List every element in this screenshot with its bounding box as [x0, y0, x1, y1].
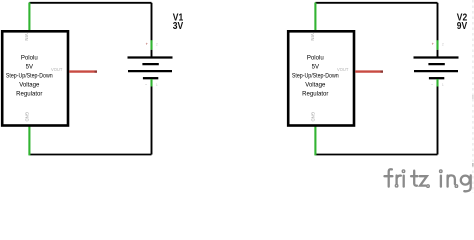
battery V2 - pin (green leg)	[436, 79, 438, 87]
svg-text:5V: 5V	[26, 64, 33, 70]
svg-text:Step-Up/Step-Down: Step-Up/Step-Down	[292, 73, 339, 79]
svg-text:VOUT: VOUT	[337, 67, 349, 72]
logo letter i (1st)	[403, 176, 405, 187]
ring under r	[395, 184, 398, 187]
wire bottom right circuit	[315, 154, 437, 156]
wire top right circuit	[315, 2, 437, 4]
wire top left circuit	[29, 2, 151, 4]
logo letter t	[414, 171, 417, 186]
logo rings (pads)	[395, 170, 457, 187]
op-amp U1 regulator box	[2, 31, 68, 125]
wire bottom left circuit	[29, 154, 151, 156]
pin VIN U1 (green leg)	[28, 3, 30, 32]
svg-text:Step-Up/Step-Down: Step-Up/Step-Down	[6, 73, 53, 79]
svg-text:9V: 9V	[457, 21, 468, 32]
ring dot i1	[402, 170, 405, 173]
svg-text:Pololu: Pololu	[21, 55, 38, 61]
svg-text:Regulator: Regulator	[16, 92, 42, 98]
logo letter g	[461, 176, 470, 185]
fritzing logo	[385, 169, 471, 191]
svg-text:GND: GND	[25, 112, 30, 122]
svg-text:2: 2	[156, 42, 158, 46]
svg-text:VIN: VIN	[310, 33, 315, 40]
pin VOUT U1 (red leg, unconnected)	[69, 70, 94, 72]
svg-text:2: 2	[442, 42, 444, 46]
battery V2 label	[457, 13, 468, 32]
svg-text:VOUT: VOUT	[51, 67, 63, 72]
svg-text:Regulator: Regulator	[302, 92, 328, 98]
pin VOUT U2 (red leg, unconnected)	[355, 70, 380, 72]
battery V2 + pin (green leg)	[436, 40, 438, 50]
svg-text:1: 1	[442, 83, 444, 87]
pin VIN U2 (green leg)	[314, 3, 316, 32]
battery V1	[128, 58, 173, 79]
svg-text:3V: 3V	[173, 21, 184, 32]
ring end of z	[427, 185, 430, 188]
svg-text:Pololu: Pololu	[307, 55, 324, 61]
wire battery V2 top vertical	[437, 3, 439, 41]
ring dot i2	[440, 170, 443, 173]
screen edge artifact	[472, 0, 474, 193]
battery V2	[414, 58, 459, 79]
battery V1 - pin (green leg)	[150, 79, 152, 87]
logo letter i (2nd)	[440, 176, 442, 187]
wire battery V2 bottom vertical	[437, 86, 439, 154]
svg-text:GND: GND	[311, 112, 316, 122]
battery V1 + pin (green leg)	[150, 40, 152, 50]
battery V1 label	[173, 13, 184, 32]
logo letter z	[420, 176, 427, 185]
logo letter f	[389, 169, 392, 186]
svg-text:Voltage: Voltage	[305, 83, 326, 89]
svg-text:1: 1	[156, 83, 158, 87]
U1 value label	[6, 55, 53, 97]
U2 value label	[292, 55, 339, 97]
wire battery V1 top vertical	[151, 3, 153, 41]
wire battery V1 bottom vertical	[151, 86, 153, 154]
ring under n	[455, 185, 458, 188]
svg-text:5V: 5V	[312, 64, 319, 70]
pin GND U2 (green leg)	[314, 126, 316, 155]
svg-text:Voltage: Voltage	[19, 83, 40, 89]
logo letter n	[446, 176, 448, 187]
logo letter r	[395, 176, 397, 184]
svg-text:VIN: VIN	[24, 33, 29, 40]
op-amp U2 regulator box	[288, 31, 354, 125]
pin GND U1 (green leg)	[28, 126, 30, 155]
